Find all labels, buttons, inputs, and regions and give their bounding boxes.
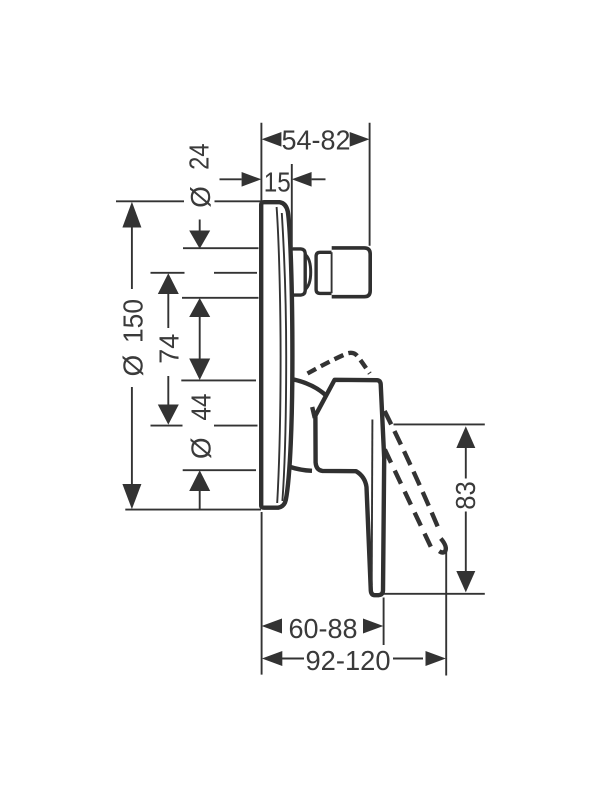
svg-text:Ø: Ø <box>185 437 216 459</box>
dimension 74 bottom arrow <box>158 405 179 425</box>
dimension D24 bottom arrow <box>189 298 210 317</box>
knob centerline <box>151 272 258 274</box>
plate-bottom projection line <box>125 509 261 511</box>
dashed-tip extension line <box>445 552 447 676</box>
knob-top projection line <box>183 247 259 249</box>
handle centerline <box>151 425 258 427</box>
dimension 60-88 left arrow <box>262 619 282 634</box>
diverter knob cap <box>332 248 371 297</box>
knob-bottom projection line <box>182 297 259 299</box>
arm-tip extension line <box>383 598 385 646</box>
dimension 15 right arrow <box>292 172 312 187</box>
plate face contour line B <box>282 213 286 501</box>
dimension 60-88 right arrow <box>363 619 383 634</box>
dimension 54-82 left arrow <box>262 132 282 147</box>
escutcheon plate (side profile) <box>261 202 292 508</box>
hub-top projection line <box>181 379 256 381</box>
dimension D44 bottom tail <box>199 491 201 510</box>
svg-text:15: 15 <box>264 166 291 197</box>
dimension D150 line lower <box>131 387 133 485</box>
dimension 92-120 right arrow <box>426 651 446 666</box>
hub-bottom projection line <box>183 469 256 471</box>
lever handle body and arm <box>315 380 384 595</box>
dimension 92-120 left arrow <box>262 651 282 666</box>
plate-top projection line <box>116 200 261 202</box>
dimension 92-120 right line <box>393 658 423 660</box>
dimension 74 top arrow <box>158 273 179 294</box>
dimension 83 line lower <box>465 512 467 572</box>
diverter knob ring <box>316 252 331 293</box>
svg-text:44: 44 <box>186 394 217 421</box>
dimension D150 top arrow <box>122 202 141 228</box>
svg-text:60-88: 60-88 <box>289 613 358 644</box>
dimension D44 bottom arrow <box>189 470 210 491</box>
dimension D24 top arrow <box>189 231 210 249</box>
dimension 15 left arrow <box>242 172 262 187</box>
svg-text:83: 83 <box>450 481 481 510</box>
dimension D24 top tail <box>199 220 201 232</box>
dimension 92-120 left line <box>282 658 304 660</box>
dimension D150 bottom arrow <box>122 484 141 509</box>
diverter knob neck <box>290 249 305 295</box>
svg-text:74: 74 <box>154 334 185 364</box>
dimension D44 top arrow <box>189 359 210 381</box>
dashed handle arm tip dash <box>439 539 446 553</box>
dimension 83 bottom arrow <box>456 571 475 592</box>
handle hub top arc <box>291 379 328 397</box>
plate face contour line A <box>277 207 281 503</box>
83 bottom extension line <box>383 593 484 595</box>
dimension 74 line upper <box>167 294 169 329</box>
knob ring/cap junction line <box>331 252 333 293</box>
dashed handle arm lower edge <box>385 450 431 547</box>
dimension D150 line upper <box>131 227 133 289</box>
dimension 74 line lower <box>167 376 169 405</box>
dimension 15 right tail <box>312 178 326 180</box>
wall extension line bottom <box>261 512 263 675</box>
knob-front extension line <box>369 123 371 246</box>
svg-text:54-82: 54-82 <box>282 125 351 156</box>
svg-text:92-120: 92-120 <box>306 645 391 676</box>
handle hub bottom arc <box>289 467 312 471</box>
dimension 83 line upper <box>465 448 467 479</box>
svg-text:150: 150 <box>117 299 148 343</box>
dimension 15 left tail <box>220 178 242 180</box>
svg-text:Ø: Ø <box>185 186 216 208</box>
83 top extension line <box>394 423 485 425</box>
shared tail D24/D44 <box>199 317 201 359</box>
plate-front extension line <box>291 164 293 247</box>
wall extension line top <box>260 123 262 203</box>
svg-text:Ø: Ø <box>117 355 148 377</box>
dashed handle arm upper edge <box>385 411 440 532</box>
dashed handle stub near hub <box>312 407 315 418</box>
dimension 54-82 right arrow <box>350 132 370 147</box>
lever arm inner contour line <box>371 420 374 586</box>
dimension 83 top arrow <box>456 426 475 448</box>
dashed handle grip (raised position) <box>308 353 370 374</box>
svg-text:24: 24 <box>184 143 215 170</box>
